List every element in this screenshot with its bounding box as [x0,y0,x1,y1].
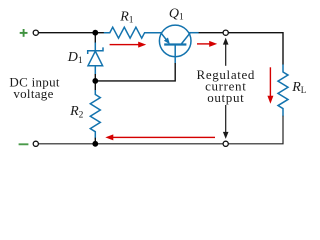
wire: node C to - input terminal [38,143,95,145]
wire: Q1 emitter stub to + output terminal [199,32,224,34]
current arrow on bottom wire (red, pointing left) [105,134,215,140]
svg-text:D1: D1 [67,50,83,66]
resistor R1 (with blue leads to transistor Q1) [104,27,161,38]
wire: Q1 base down and left to node B [95,63,175,81]
resistor RL (load, right side) [278,64,288,116]
wire: - output terminal to node C [95,143,223,145]
terminal: - output (open circle) [223,141,228,146]
svg-text:R2: R2 [69,104,84,120]
terminal: + output (open circle) [223,30,228,35]
node B junction dot [92,78,98,84]
terminal: - input (open circle) [33,141,38,146]
svg-text:voltage: voltage [13,86,53,101]
svg-text:output: output [207,90,244,105]
svg-text:Q1: Q1 [169,6,184,22]
plus sign (input polarity) [20,29,28,37]
pointer arrow up to + output terminal [223,38,229,66]
wire: RL bottom to bottom-right corner to - output terminal [228,116,283,144]
label: Regulated current output [197,67,256,105]
label: DC input voltage [9,75,60,101]
pointer arrow down to - output terminal [223,105,229,139]
svg-text:RL: RL [291,80,306,95]
current arrow beside RL (red, pointing down) [267,67,273,103]
transistor Q1 (PNP, base down) [159,25,199,63]
wire: node A to resistor R1 lead [95,32,104,34]
svg-text:R1: R1 [119,9,134,25]
current arrow after Q1 (red, pointing right) [197,41,217,47]
wire top rail: + input terminal to node A [38,32,95,34]
current arrow under R1 (red, pointing right) [110,42,147,48]
node C junction dot [92,141,98,147]
zener diode D1 [88,33,103,81]
resistor R2 [90,81,100,144]
terminal: + input (open circle) [33,30,38,35]
minus sign (input polarity) [19,143,29,145]
wire: + output terminal to top-right corner and down [228,33,283,65]
node A junction dot [92,30,98,36]
